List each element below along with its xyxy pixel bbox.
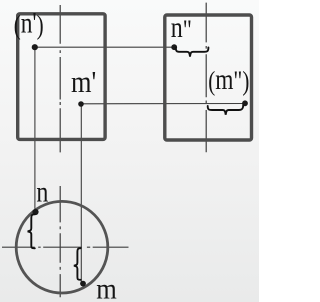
svg-text:(m"): (m") xyxy=(208,62,249,97)
svg-text:n": n" xyxy=(171,11,192,46)
svg-text:(n'): (n') xyxy=(14,6,44,41)
vertical brace at m (depth measure) xyxy=(74,248,81,280)
point n xyxy=(32,209,38,215)
point (m'') xyxy=(242,100,248,106)
vertical centerline of side view xyxy=(205,3,207,153)
projection line m' to (m'') xyxy=(81,103,245,105)
point n'' xyxy=(171,44,177,50)
point n' xyxy=(32,44,38,50)
underbrace at n'' (depth measure) xyxy=(176,47,209,56)
vertical centerline of front view (axis) xyxy=(59,5,61,152)
svg-text:m: m xyxy=(96,273,117,302)
vertical centerline of top view circle xyxy=(59,186,61,297)
side view rectangle xyxy=(165,15,252,140)
point m' xyxy=(78,101,84,107)
horizontal centerline of top view circle xyxy=(2,246,129,248)
underbrace at (m'') (depth measure) xyxy=(208,105,244,115)
point m xyxy=(80,281,86,287)
svg-text:n: n xyxy=(36,175,48,208)
front view rectangle xyxy=(18,14,105,140)
vertical brace at n (depth measure) xyxy=(28,214,35,248)
top view circle xyxy=(16,201,108,293)
projection line n' to n xyxy=(34,47,36,212)
svg-text:m': m' xyxy=(71,65,96,99)
projection line m' to m xyxy=(80,104,82,284)
projection line n' to n'' xyxy=(35,46,174,48)
